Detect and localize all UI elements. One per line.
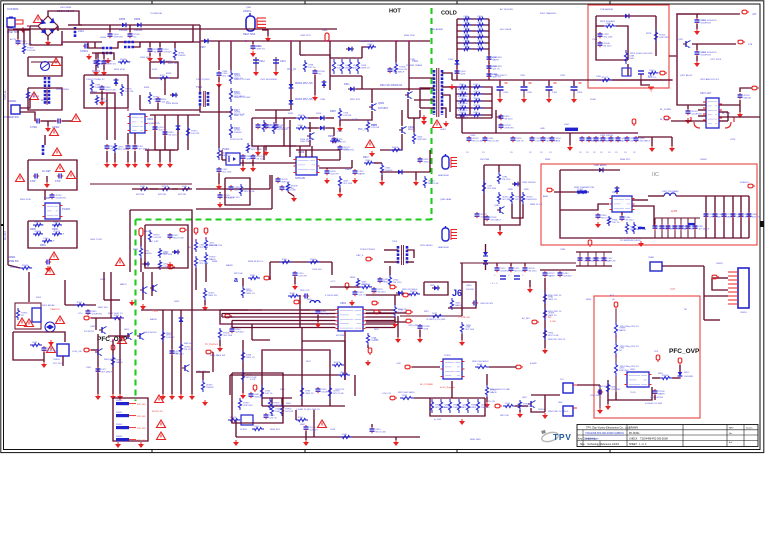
svg-text:RS801: RS801 — [116, 412, 123, 414]
label — [434, 419, 442, 421]
junction — [205, 237, 207, 239]
svg-text:100K: 100K — [460, 74, 465, 76]
wire U801 left pin — [300, 313, 336, 315]
capacitor C976 — [695, 50, 712, 57]
svg-text:R927 47R: R927 47R — [350, 99, 360, 101]
connector LOW_ON — [84, 348, 91, 352]
capacitor C812 — [372, 287, 387, 294]
svg-text:C930: C930 — [343, 149, 349, 151]
svg-text:Q901: Q901 — [246, 7, 252, 9]
transistor Q801 — [99, 327, 107, 334]
wire harness — [222, 316, 300, 318]
resistor R951 — [239, 184, 255, 196]
mosfet Q820 J6 — [452, 288, 462, 298]
svg-text:100K: 100K — [691, 229, 696, 231]
svg-text:R851 2Meg 1206 1%: R851 2Meg 1206 1% — [620, 326, 639, 328]
svg-text:R935: R935 — [288, 113, 294, 115]
capacitor — [660, 224, 673, 231]
wire — [696, 44, 698, 50]
svg-text:49R9 1%: 49R9 1% — [35, 233, 44, 235]
wire — [687, 105, 689, 109]
wire loop relay — [13, 332, 65, 342]
label — [444, 355, 451, 357]
svg-text:R926: R926 — [371, 124, 377, 127]
ground — [145, 162, 151, 168]
wire — [451, 381, 453, 398]
ground — [169, 394, 175, 400]
junction — [230, 111, 232, 113]
warning triangle — [72, 114, 81, 122]
capacitor C86x — [594, 256, 611, 263]
svg-text:TPV: TPV — [553, 432, 572, 442]
capacitor C972 — [598, 41, 613, 48]
ground — [101, 70, 107, 76]
wire — [108, 335, 130, 337]
wire — [195, 268, 197, 290]
label HS901 — [243, 9, 251, 13]
svg-text:C9: C9 — [549, 152, 552, 154]
wire — [394, 295, 396, 305]
label — [168, 63, 177, 65]
diode stack D820 — [483, 252, 488, 264]
ground — [337, 192, 343, 198]
svg-text:CAP_S: CAP_S — [356, 254, 364, 257]
wire — [101, 91, 103, 100]
ground — [443, 121, 449, 127]
wire — [242, 160, 244, 166]
junction — [87, 41, 89, 43]
junction — [485, 262, 487, 264]
svg-text:104 X7R: 104 X7R — [191, 133, 200, 135]
junction — [573, 79, 575, 81]
resistor R953 — [423, 176, 439, 188]
warning triangle — [16, 174, 25, 182]
label — [52, 228, 58, 231]
svg-text:MTZJ 5.6B: MTZJ 5.6B — [375, 432, 386, 434]
junction — [290, 40, 292, 42]
IC U901 — [128, 114, 148, 133]
svg-text:VCC_IN: VCC_IN — [287, 68, 296, 71]
svg-text:560KΩ 1% 1/4W: 560KΩ 1% 1/4W — [234, 97, 251, 99]
wire — [127, 151, 129, 162]
label — [337, 131, 343, 133]
label — [424, 311, 430, 313]
label — [286, 403, 292, 405]
ground — [312, 95, 318, 101]
margin label — [10, 266, 18, 269]
label — [140, 57, 151, 59]
wire — [264, 145, 296, 147]
ground — [112, 162, 118, 168]
resistor R849 — [280, 404, 293, 416]
svg-text:CY901: CY901 — [30, 126, 38, 129]
label — [700, 92, 712, 95]
svg-text:NC: NC — [463, 42, 467, 44]
electrolytic cap C913 — [273, 57, 279, 70]
connector X2 — [588, 240, 592, 247]
capacitor C981 — [596, 213, 613, 220]
wire — [330, 57, 362, 59]
svg-text:C929: C929 — [337, 131, 343, 133]
label — [495, 75, 508, 77]
svg-text:D803: D803 — [174, 301, 180, 303]
wire — [91, 349, 98, 351]
svg-text:ICE3BR4765: ICE3BR4765 — [147, 123, 161, 125]
svg-text:SEC SNUB: SEC SNUB — [500, 29, 512, 31]
resistor R817 — [332, 362, 344, 367]
svg-text:ZD902 MTZ-J18: ZD902 MTZ-J18 — [295, 82, 313, 85]
warning triangle — [433, 120, 442, 128]
label — [196, 371, 207, 373]
resistor R957 — [241, 370, 257, 382]
svg-text:1UF/50V: 1UF/50V — [235, 332, 244, 334]
svg-text:10K 1%: 10K 1% — [516, 141, 523, 143]
resistor R923 sense — [356, 59, 370, 74]
label — [295, 177, 306, 180]
capacitor C934 — [94, 59, 107, 66]
svg-text:L905: L905 — [596, 76, 602, 78]
svg-text:R825 470 SMD-F: R825 470 SMD-F — [402, 289, 418, 291]
resistor R951a — [462, 22, 471, 27]
label — [150, 240, 159, 243]
junction — [396, 40, 398, 42]
capacitor C96x — [530, 136, 544, 143]
junction — [491, 86, 493, 88]
net label PFC_OVP — [97, 336, 128, 343]
ground st — [648, 87, 654, 91]
resistor R986b — [625, 222, 639, 234]
svg-text:GND1: GND1 — [440, 129, 447, 131]
svg-text:1N4148: 1N4148 — [606, 141, 614, 143]
connector J901 — [194, 228, 198, 235]
connector J902 — [204, 228, 208, 235]
wire ladder left — [456, 19, 458, 52]
warning triangle — [30, 92, 39, 100]
svg-text:RS803: RS803 — [116, 436, 123, 438]
svg-text:PC802: PC802 — [444, 355, 451, 357]
resistor R916 — [229, 88, 245, 102]
diode D982 — [615, 186, 620, 194]
label — [558, 402, 563, 404]
wire — [275, 110, 277, 123]
wire snubber bottom — [456, 117, 492, 119]
wire — [366, 321, 406, 323]
wire — [531, 394, 560, 396]
svg-text:R944 1206: R944 1206 — [404, 35, 415, 37]
label — [280, 389, 286, 391]
svg-text:2K2 1206: 2K2 1206 — [523, 406, 533, 408]
wire — [344, 331, 346, 380]
wire — [295, 410, 297, 420]
wire — [97, 334, 99, 394]
svg-text:KTC3875S: KTC3875S — [84, 331, 94, 333]
wire — [331, 262, 333, 275]
label — [440, 129, 447, 131]
IC U801 PFC controller — [336, 307, 366, 331]
wire — [109, 25, 111, 32]
svg-text:470P/1KV: 470P/1KV — [113, 37, 123, 39]
wire — [648, 195, 664, 197]
IC U972 regulator — [706, 98, 719, 128]
svg-text:5VSB: 5VSB — [590, 99, 596, 101]
warning triangle — [46, 267, 55, 275]
label T902 — [196, 85, 202, 89]
svg-text:104 X7R: 104 X7R — [125, 91, 134, 93]
svg-text:PFC_OVP: PFC_OVP — [669, 348, 700, 355]
wire — [301, 328, 303, 351]
junction — [127, 109, 129, 111]
section box standby — [588, 5, 669, 88]
capacitor C810 — [303, 294, 309, 299]
wire — [140, 109, 200, 111]
wire pfc box left — [129, 210, 131, 272]
label — [226, 264, 233, 267]
wire U801 right pin — [366, 323, 396, 325]
label — [280, 60, 286, 63]
svg-text:100UF/25V: 100UF/25V — [55, 198, 66, 200]
label — [382, 393, 391, 395]
wire — [299, 41, 301, 55]
ground — [517, 412, 523, 418]
wire — [284, 140, 310, 146]
ground — [216, 82, 222, 88]
resistor R801 — [16, 308, 28, 320]
diode D981 — [597, 168, 605, 173]
capacitor C954b — [293, 271, 307, 278]
wire U801 left pin — [300, 316, 336, 318]
svg-text:+5V: +5V — [752, 13, 757, 16]
label T901 — [412, 59, 418, 63]
diode D911 — [348, 87, 356, 92]
svg-text:1N4148: 1N4148 — [206, 387, 214, 389]
svg-text:C934: C934 — [320, 99, 326, 101]
wire — [510, 263, 512, 266]
capacitor C86x — [578, 256, 595, 263]
svg-text:+ C + C: + C + C — [490, 283, 498, 285]
capacitor C96x — [601, 136, 615, 143]
connector SDA — [748, 184, 755, 188]
svg-text:100K: 100K — [463, 36, 468, 38]
wire — [62, 356, 64, 366]
resistor R995 — [194, 256, 209, 268]
label — [494, 275, 496, 277]
wire — [339, 150, 341, 160]
frame tick — [1, 224, 4, 226]
wire — [560, 169, 620, 171]
wire loop pfcbox — [145, 225, 188, 268]
wire — [106, 151, 108, 162]
label — [378, 107, 389, 110]
svg-text:4K7 SMD-F: 4K7 SMD-F — [432, 315, 444, 317]
svg-text:R915: R915 — [234, 73, 240, 76]
svg-text:100UF/25V: 100UF/25V — [91, 314, 102, 316]
wire — [381, 175, 383, 180]
wire — [596, 15, 625, 17]
wire — [326, 117, 334, 119]
wire — [486, 374, 488, 385]
wire — [294, 277, 296, 284]
relay coil — [32, 308, 41, 322]
shunt resistor RS0 — [116, 402, 136, 405]
warning triangle — [155, 395, 164, 403]
svg-text:470 SMD-F: 470 SMD-F — [362, 286, 373, 288]
wire — [330, 286, 360, 288]
label — [166, 73, 172, 75]
label — [55, 180, 61, 183]
svg-text:R982 THERMISTOR: R982 THERMISTOR — [574, 187, 595, 189]
resistor R946 — [120, 84, 133, 96]
wire — [106, 93, 108, 140]
svg-text:49R9 1%: 49R9 1% — [107, 64, 116, 66]
svg-text:LF902 35MH: LF902 35MH — [56, 89, 69, 91]
wire — [415, 172, 417, 180]
svg-text:0.1R 2W: 0.1R 2W — [343, 115, 351, 117]
svg-text:C9: C9 — [482, 152, 485, 154]
wire — [302, 340, 345, 342]
connector VCC3 — [345, 283, 349, 290]
label — [150, 318, 157, 321]
svg-text:L981 TDK BEAD: L981 TDK BEAD — [662, 190, 679, 193]
svg-text:+5VF: +5VF — [396, 363, 402, 365]
resistor R921 sense — [340, 59, 354, 74]
label — [543, 195, 548, 198]
svg-text:U851: U851 — [630, 369, 636, 371]
wire — [94, 42, 96, 48]
resistor R813 — [393, 305, 406, 317]
svg-text:MTZJ 5.6B: MTZJ 5.6B — [77, 304, 88, 306]
label — [287, 68, 296, 71]
wire loop Q-sec — [484, 165, 520, 225]
svg-text:2K2 1206: 2K2 1206 — [637, 229, 647, 231]
capacitor C86x — [586, 256, 600, 263]
svg-text:C913: C913 — [280, 60, 286, 63]
wire — [326, 128, 334, 136]
electrolytic C827 — [514, 276, 520, 279]
label — [234, 115, 243, 117]
svg-text:R823: R823 — [350, 277, 356, 279]
svg-text:C9: C9 — [540, 152, 543, 154]
title block outer — [577, 425, 758, 447]
svg-text:ZD903 MTZ-J18: ZD903 MTZ-J18 — [295, 98, 313, 101]
svg-text:1M 1210: 1M 1210 — [168, 135, 177, 137]
capacitor C985 — [475, 212, 488, 219]
wire U801 right pin — [366, 320, 396, 322]
label — [288, 113, 294, 115]
resistor R981 thick — [575, 189, 589, 194]
wire — [134, 42, 140, 47]
wire — [112, 53, 114, 60]
ground — [45, 126, 51, 132]
svg-text:+VCC: +VCC — [330, 281, 336, 283]
capacitor C98x — [739, 212, 754, 219]
label — [178, 194, 187, 196]
wire — [371, 424, 373, 427]
svg-text:AMB: AMB — [543, 195, 548, 198]
capacitor C928 — [274, 123, 291, 130]
diode D851 — [678, 372, 683, 376]
wire — [149, 53, 151, 56]
connector aux — [712, 275, 719, 279]
junction — [635, 132, 637, 134]
svg-text:AC_DET: AC_DET — [522, 317, 531, 320]
capacitor C824 — [543, 271, 556, 278]
svg-text:1N4148: 1N4148 — [743, 98, 751, 100]
wire — [305, 431, 307, 440]
resistor R920 sense — [332, 59, 344, 74]
label — [466, 23, 470, 25]
wire — [263, 146, 265, 160]
svg-text:104 X7R: 104 X7R — [606, 25, 615, 27]
svg-text:C9: C9 — [624, 152, 627, 154]
warning triangle — [318, 420, 327, 428]
resistor R964a — [458, 112, 470, 117]
warning triangle — [25, 319, 34, 327]
svg-text:D981 BAV99: D981 BAV99 — [594, 164, 607, 167]
junction — [597, 237, 599, 239]
label — [230, 317, 236, 319]
svg-text:2SK3567: 2SK3567 — [466, 289, 475, 291]
label — [259, 60, 265, 63]
wire — [615, 309, 617, 322]
wire — [485, 244, 487, 252]
diode D914 — [318, 126, 326, 131]
svg-text:10K 1%: 10K 1% — [358, 295, 365, 297]
label — [458, 89, 469, 91]
svg-text:D820 SB560: D820 SB560 — [420, 245, 433, 247]
connector AC_S — [225, 314, 232, 318]
resistor R994 — [194, 240, 209, 252]
svg-text:GND: GND — [540, 128, 545, 130]
wire — [700, 195, 749, 197]
ground — [694, 61, 700, 67]
wire — [712, 278, 728, 290]
diode D906 — [137, 23, 141, 28]
resistor R986 — [497, 172, 511, 184]
svg-text:C9: C9 — [600, 152, 603, 154]
junction — [329, 349, 331, 351]
wire — [231, 321, 233, 328]
capacitor C98x — [747, 212, 760, 219]
label red — [50, 308, 61, 311]
diode D991 — [142, 262, 150, 267]
electrolytic cap C912 — [253, 57, 259, 70]
label — [316, 113, 322, 115]
ground — [542, 348, 548, 354]
svg-text:R996 1M 1210: R996 1M 1210 — [209, 245, 223, 247]
wire T901 pin2 — [420, 87, 434, 89]
label — [8, 256, 16, 259]
label — [150, 13, 163, 15]
label — [548, 411, 569, 413]
resistor R914 — [118, 59, 131, 64]
wire — [524, 263, 526, 266]
resistor R933 — [160, 186, 172, 191]
wire — [573, 80, 575, 86]
IC U981 — [610, 196, 635, 212]
svg-text:49R9 1%: 49R9 1% — [246, 357, 255, 359]
wire — [191, 272, 193, 394]
svg-text:470 SMD-F: 470 SMD-F — [277, 129, 288, 131]
resistor R937 — [364, 160, 377, 165]
label — [466, 152, 469, 154]
svg-text:D985 1N4148: D985 1N4148 — [522, 182, 536, 184]
ground — [324, 178, 330, 184]
wire T901 pin4 — [420, 107, 434, 109]
resistor R903 — [26, 90, 39, 100]
transformer LF902 winding A — [44, 77, 47, 89]
resistor R867 — [268, 398, 281, 410]
svg-text:BAV99: BAV99 — [658, 393, 665, 396]
